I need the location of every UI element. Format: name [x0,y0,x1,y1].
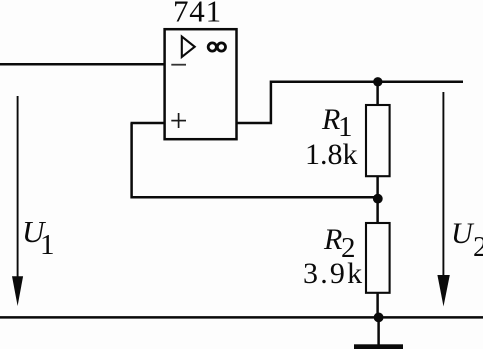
svg-text:1: 1 [40,229,55,261]
svg-text:3.9k: 3.9k [303,257,364,290]
svg-text:R: R [323,223,342,256]
svg-text:741: 741 [173,0,222,28]
svg-text:1.8k: 1.8k [305,138,358,171]
svg-text:U: U [451,217,475,250]
svg-text:2: 2 [473,231,483,263]
